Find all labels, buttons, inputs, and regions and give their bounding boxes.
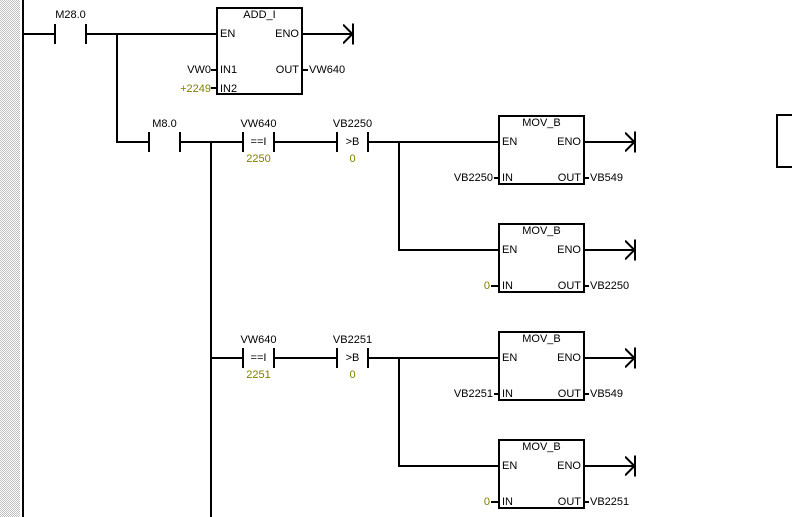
MOV_B 1 ENO wire	[585, 141, 634, 143]
operand 0	[430, 281, 490, 292]
comparator >B left bar	[336, 132, 338, 152]
label M8.0	[132, 119, 197, 130]
branch wire down from rung 1 to rung 2	[116, 33, 118, 143]
left power rail	[22, 0, 24, 517]
MOV_B 1 pin IN	[502, 173, 513, 184]
MOV_B box 3	[498, 331, 585, 401]
wire: rail to contact M28.0	[24, 33, 54, 35]
wire: branch to contact M8.0	[116, 141, 148, 143]
MOV_B 4 pin EN	[502, 461, 517, 472]
comparator ==I right bar	[273, 132, 275, 152]
MOV_B 3 pin OUT	[532, 389, 581, 400]
MOV_B 2 pin OUT	[532, 281, 581, 292]
label VW640	[226, 119, 291, 130]
comparator ==I rung3 right bar	[273, 348, 275, 368]
MOV_B 1 pin EN	[502, 137, 517, 148]
MOV_B 3 ENO wire	[585, 357, 634, 359]
MOV_B 4 pin ENO	[532, 461, 581, 472]
MOV_B 4 OUT stub wire	[585, 501, 589, 503]
MOV_B 3 pin EN	[502, 353, 517, 364]
label VW640 rung3	[226, 335, 291, 346]
wire: >B to MOV_B 3 EN	[369, 357, 498, 359]
wire: branch rail to comparator ==I rung 3	[210, 357, 242, 359]
operand VB549 rung3	[590, 389, 623, 400]
MOV_B 2 IN stub wire	[491, 285, 498, 287]
value 2250	[226, 154, 291, 165]
MOV_B 3 continuation arrow	[625, 346, 637, 370]
contact M8.0 right bar	[179, 132, 181, 152]
comparator >B rung3 right bar	[367, 348, 369, 368]
branch rail down from rung 2 to lower rungs	[210, 141, 212, 517]
wire: ==I to >B	[275, 141, 336, 143]
operand VW0	[151, 65, 211, 76]
MOV_B 3 pin IN	[502, 389, 513, 400]
MOV_B 1 OUT stub wire	[585, 177, 589, 179]
MOV_B 4 pin IN	[502, 497, 513, 508]
MOV_B 2 title	[509, 226, 574, 237]
comparator symbol ==I rung3	[226, 353, 291, 364]
MOV_B 2 ENO wire	[585, 249, 634, 251]
MOV_B 1 title	[509, 118, 574, 129]
MOV_B 4 pin OUT	[532, 497, 581, 508]
MOV_B 4 ENO wire	[585, 465, 634, 467]
MOV_B box 2	[498, 223, 585, 293]
network margin dither strip	[0, 0, 20, 517]
comparator >B right bar	[367, 132, 369, 152]
wire: branch to MOV_B 2 EN	[398, 249, 498, 251]
value 2251	[226, 370, 291, 381]
contact M28.0 left bar	[54, 24, 56, 44]
MOV_B 1 pin ENO	[532, 137, 581, 148]
MOV_B 4 continuation arrow	[625, 454, 637, 478]
MOV_B 2 OUT stub wire	[585, 285, 589, 287]
label VB2250	[320, 119, 385, 130]
ADD_I pin OUT	[250, 65, 299, 76]
value 0	[320, 154, 385, 165]
branch wire down to MOV_B 2	[398, 141, 400, 251]
wire: contact M28.0 to ADD_I EN	[87, 33, 216, 35]
MOV_B 3 OUT stub wire	[585, 393, 589, 395]
ADD_I pin IN2	[220, 84, 237, 95]
ADD_I title	[227, 10, 292, 21]
IN1 stub wire	[211, 69, 216, 71]
comparator symbol >B rung3	[320, 353, 385, 364]
comparator ==I left bar	[242, 132, 244, 152]
MOV_B 1 continuation arrow	[625, 130, 637, 154]
comparator >B rung3 left bar	[336, 348, 338, 368]
label M28.0	[38, 10, 103, 21]
ADD_I pin IN1	[220, 65, 237, 76]
contact M8.0 left bar	[148, 132, 150, 152]
MOV_B 4 IN stub wire	[491, 501, 498, 503]
operand VB2251 rung4	[590, 497, 629, 508]
MOV_B box 4	[498, 439, 585, 509]
operand VW640	[309, 65, 345, 76]
MOV_B 3 title	[509, 334, 574, 345]
operand VB2250	[590, 281, 629, 292]
comparator symbol ==I	[226, 137, 291, 148]
label VB2251	[320, 335, 385, 346]
MOV_B 3 IN stub wire	[494, 393, 498, 395]
IN2 stub wire	[211, 87, 216, 89]
MOV_B 1 pin OUT	[532, 173, 581, 184]
comparator ==I rung3 left bar	[242, 348, 244, 368]
rung 1 continuation arrow	[343, 22, 355, 46]
operand VB2251	[433, 389, 493, 400]
MOV_B box 1	[498, 115, 585, 185]
MOV_B 4 title	[509, 442, 574, 453]
MOV_B 2 pin IN	[502, 281, 513, 292]
operand +2249	[151, 84, 211, 95]
ADD_I pin ENO	[250, 29, 299, 40]
contact M28.0 right bar	[85, 24, 87, 44]
MOV_B 1 IN stub wire	[494, 177, 498, 179]
branch wire down to MOV_B 4	[398, 357, 400, 467]
MOV_B 2 continuation arrow	[625, 238, 637, 262]
wire: ==I to >B rung3	[275, 357, 336, 359]
value 0 rung3	[320, 370, 385, 381]
MOV_B 3 pin ENO	[532, 353, 581, 364]
MOV_B 2 pin EN	[502, 245, 517, 256]
wire: >B to MOV_B 1 EN	[369, 141, 498, 143]
ENO wire to arrow	[303, 33, 352, 35]
partial network box at right edge	[776, 114, 792, 168]
MOV_B 2 pin ENO	[532, 245, 581, 256]
OUT stub wire	[303, 69, 308, 71]
ADD_I pin EN	[220, 29, 235, 40]
operand VB549	[590, 173, 623, 184]
operand VB2250	[433, 173, 493, 184]
wire: M8.0 to comparator ==I	[181, 141, 242, 143]
operand 0 rung4	[430, 497, 490, 508]
wire: branch to MOV_B 4 EN	[398, 465, 498, 467]
ADD_I box	[216, 7, 303, 95]
comparator symbol >B	[320, 137, 385, 148]
